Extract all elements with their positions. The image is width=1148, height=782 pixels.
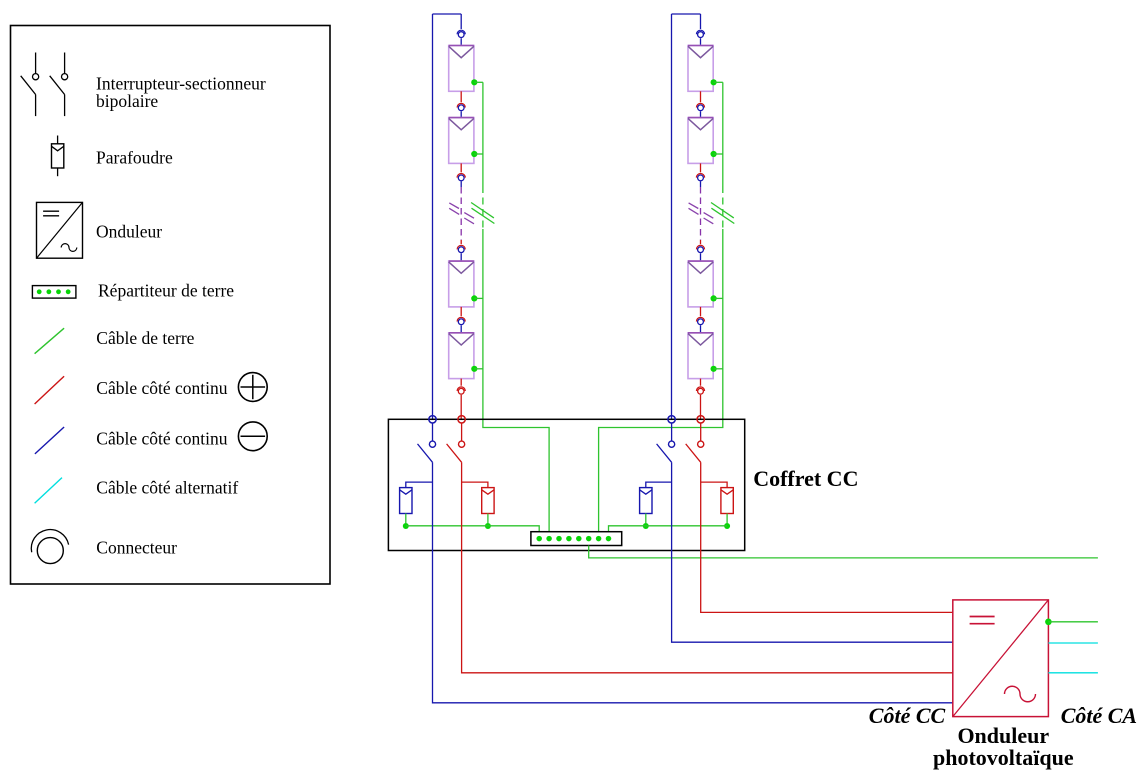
svg-text:Câble côté continu: Câble côté continu	[96, 378, 227, 398]
svg-text:Câble côté alternatif: Câble côté alternatif	[96, 478, 238, 498]
svg-text:Parafoudre: Parafoudre	[96, 148, 173, 168]
svg-text:Côté CA: Côté CA	[1061, 703, 1137, 728]
svg-text:photovoltaïque: photovoltaïque	[933, 745, 1074, 770]
svg-text:Onduleur: Onduleur	[96, 221, 162, 241]
svg-text:Répartiteur de terre: Répartiteur de terre	[98, 280, 234, 300]
svg-text:Coffret CC: Coffret CC	[753, 466, 858, 491]
svg-text:Côté CC: Côté CC	[869, 703, 946, 728]
svg-text:Câble de terre: Câble de terre	[96, 328, 194, 348]
svg-text:bipolaire: bipolaire	[96, 91, 158, 111]
svg-text:Connecteur: Connecteur	[96, 538, 177, 558]
svg-text:Câble côté continu: Câble côté continu	[96, 428, 227, 448]
